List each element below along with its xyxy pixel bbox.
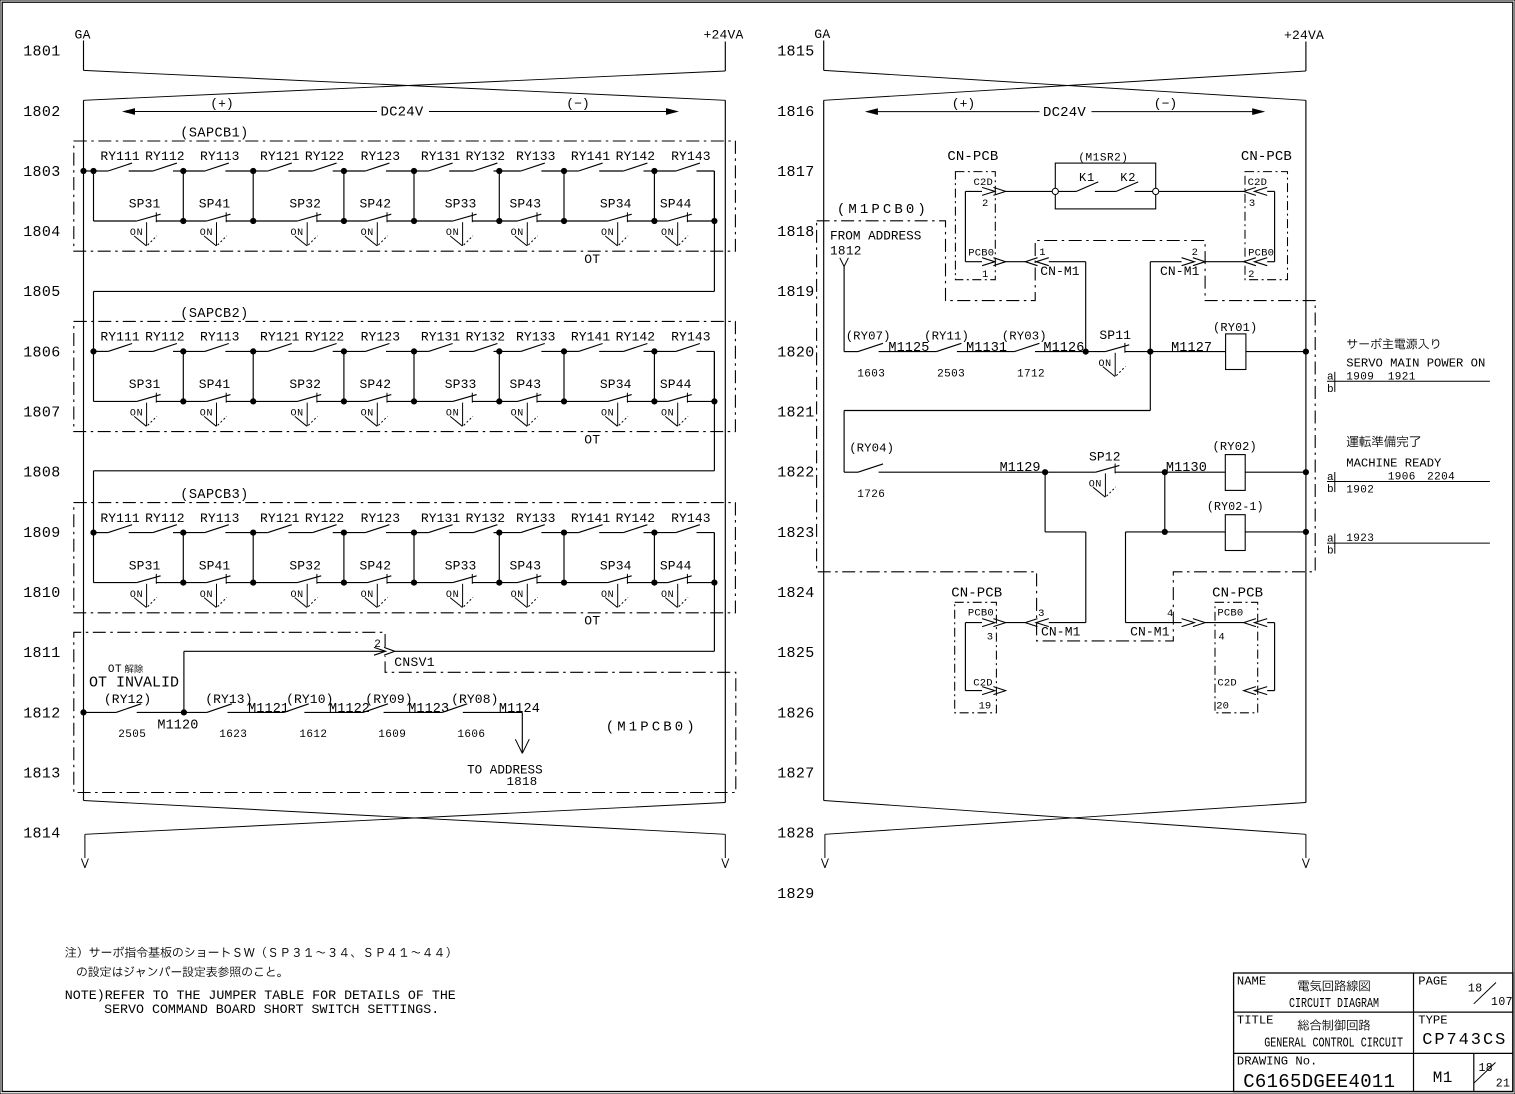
junction M1130 node	[1162, 470, 1167, 475]
svg-text:1815: 1815	[777, 44, 814, 61]
label address 1712	[1017, 368, 1045, 380]
wire SAPCB1 OT output return	[94, 171, 715, 351]
junction SAPCB1 SP row node 1	[181, 218, 186, 223]
wire CNSV1 to OT-invalid contact row	[184, 651, 386, 712]
contact RY131 (SAPCB3) NO contact	[421, 511, 461, 533]
contact RY122 (SAPCB2) NO contact	[305, 330, 345, 352]
relay unit (M1SR2) box	[1055, 153, 1155, 209]
junction left rail row 1812	[81, 710, 86, 715]
svg-text:RY112: RY112	[145, 330, 185, 345]
contact (RY11) signal M1131	[924, 329, 1007, 356]
label OT (SAPCB3 output)	[584, 614, 600, 629]
connector pin C2D-3 (top right)	[1244, 177, 1268, 210]
switch SP44 (SAPCB2) slide switch with ON position	[660, 377, 692, 426]
svg-text:C2D: C2D	[974, 177, 994, 189]
svg-text:1820: 1820	[777, 344, 814, 361]
junction node 7 SAPCB1 RY row	[652, 168, 657, 173]
wire SAPCB1 SP row segment under SP42	[344, 220, 414, 222]
wire SAPCB1 SP row segment under SP44	[654, 220, 714, 222]
svg-text:SP41: SP41	[199, 377, 231, 392]
contact RY141 (SAPCB2) NO contact	[571, 330, 611, 352]
contact RY141 (SAPCB3) NO contact	[571, 511, 611, 533]
wire SAPCB2 SP row segment under SP43	[499, 400, 564, 402]
svg-text:2: 2	[374, 639, 381, 651]
title block TITLE field	[1237, 1013, 1403, 1051]
junction node 4 SAPCB1 RY row	[411, 168, 416, 173]
wire SAPCB3 SP row segment under SP42	[344, 582, 414, 584]
svg-text:CN-PCB: CN-PCB	[1212, 586, 1263, 602]
label OT (SAPCB2 output)	[584, 432, 600, 447]
svg-text:1804: 1804	[23, 224, 60, 241]
svg-text:1826: 1826	[777, 705, 814, 722]
wire to next address arrow	[515, 712, 529, 753]
label address 1609	[378, 729, 406, 741]
wire SAPCB1 SP row segment under SP33	[414, 220, 499, 222]
contact RY112 (SAPCB3) NO contact	[145, 511, 185, 533]
svg-text:SP33: SP33	[445, 558, 477, 573]
wire from address 1812 with entry arrow	[840, 258, 849, 352]
contact RY132 (SAPCB2) NO contact	[466, 330, 506, 352]
note text english line 2	[104, 1002, 439, 1017]
svg-text:(M1SR2): (M1SR2)	[1078, 153, 1128, 165]
node GA (left sheet)	[75, 28, 91, 71]
svg-text:1808: 1808	[23, 465, 60, 482]
label address 1623	[219, 729, 247, 741]
svg-text:1810: 1810	[23, 585, 60, 602]
svg-text:DC24V: DC24V	[1043, 105, 1086, 121]
continuation arrow bottom-left (right sheet)	[821, 834, 828, 868]
contact (RY03) signal M1126	[1002, 329, 1085, 356]
contact RY113 (SAPCB3) NO contact	[200, 511, 240, 533]
svg-text:1923: 1923	[1346, 533, 1374, 545]
svg-text:SP31: SP31	[129, 197, 161, 212]
wire PCB0-1 to CN-M1-1	[1006, 261, 1026, 263]
svg-text:FROM ADDRESS: FROM ADDRESS	[830, 229, 921, 244]
svg-text:RY143: RY143	[671, 330, 711, 345]
label address 1606	[457, 729, 485, 741]
svg-text:(RY08): (RY08)	[451, 692, 498, 707]
contact RY121 (SAPCB2) NO contact	[260, 330, 300, 352]
label M1122	[329, 702, 370, 717]
wire CN-M1-4 to PCB0-4	[1205, 622, 1244, 624]
contact RY121 (SAPCB1) NO contact	[260, 149, 300, 171]
terminal circle M1SR2 left	[1052, 188, 1058, 194]
junction M1129 node	[1043, 470, 1048, 475]
PCB block (SAPCB2) dash-dot boundary	[74, 321, 736, 431]
switch SP34 (SAPCB3) slide switch with ON position	[600, 558, 632, 607]
signal stub SERVO MAIN POWER ON pages 1909 1921	[1327, 338, 1490, 396]
junction SAPCB2 SP row node 3	[341, 399, 346, 404]
wire SAPCB3 RY row segment nodes 1-2	[183, 532, 253, 534]
switch SP41 (SAPCB3) slide switch with ON position	[199, 558, 231, 607]
wire SAPCB2 SP row segment under SP33	[414, 400, 499, 402]
svg-text:a: a	[1327, 472, 1334, 484]
continuation arrow bottom-right (left sheet)	[722, 834, 729, 868]
wire M1SR2 to C2D-3	[1159, 190, 1244, 192]
junction node 5 SAPCB3 RY row	[497, 530, 502, 535]
svg-text:SP43: SP43	[509, 377, 541, 392]
wire M1SR2 internal segments	[1058, 190, 1152, 192]
continuation arrow bottom-right (right sheet)	[1302, 834, 1309, 868]
wire SAPCB3 SP row segment under SP33	[414, 582, 499, 584]
svg-text:RY122: RY122	[305, 330, 345, 345]
title block PAGE field	[1418, 974, 1513, 1009]
label (M1PCB0) right sheet	[837, 202, 929, 218]
svg-text:RY111: RY111	[100, 511, 140, 526]
svg-text:SP42: SP42	[359, 558, 391, 573]
contact RY131 (SAPCB1) NO contact	[421, 149, 461, 171]
contact RY132 (SAPCB1) NO contact	[466, 149, 506, 171]
svg-text:PAGE: PAGE	[1418, 974, 1447, 988]
wire SAPCB3 SP row segment under SP44	[654, 582, 714, 584]
label OT INVALID	[89, 674, 179, 691]
wire SAPCB3 RY row segment nodes 7-8	[654, 532, 714, 534]
svg-text:RY142: RY142	[616, 149, 656, 164]
svg-text:1612: 1612	[299, 729, 327, 741]
switch SP31 (SAPCB3) slide switch with ON position	[129, 558, 161, 607]
switch SP34 (SAPCB2) slide switch with ON position	[600, 377, 632, 426]
relay coil (RY01)	[1213, 321, 1257, 370]
wire SAPCB2 RY row segment nodes 1-2	[183, 350, 253, 352]
svg-text:CN-M1: CN-M1	[1160, 264, 1200, 279]
junction node 0 SAPCB3 RY row	[91, 530, 96, 535]
wire SAPCB1 RY row segment nodes 1-2	[183, 170, 253, 172]
wire SAPCB3 RY row segment nodes 3-4	[344, 532, 414, 534]
connector CN-PCB top-right dash-dot boundary	[1245, 172, 1288, 280]
wire jumper C2D-3 to PCB0-2 (connector back)	[1267, 191, 1274, 261]
svg-text:RY141: RY141	[571, 330, 611, 345]
svg-text:CIRCUIT DIAGRAM: CIRCUIT DIAGRAM	[1289, 997, 1379, 1012]
svg-text:SP33: SP33	[445, 197, 477, 212]
wire row 1820 up to CN-M1-2	[1150, 262, 1181, 352]
junction node 1 SAPCB3 RY row	[181, 530, 186, 535]
svg-text:1818: 1818	[507, 775, 538, 789]
switch SP32 (SAPCB2) slide switch with ON position	[289, 377, 321, 426]
switch SP42 (SAPCB3) slide switch with ON position	[359, 558, 391, 607]
svg-text:C2D: C2D	[1248, 177, 1268, 189]
contact (RY13) NO contact, signal M1121	[205, 692, 252, 712]
junction node 1 SAPCB1 RY row	[181, 168, 186, 173]
switch SP32 (SAPCB1) slide switch with ON position	[289, 197, 321, 246]
svg-text:4: 4	[1218, 631, 1224, 643]
connector pin C2D-19 (bottom left)	[973, 678, 1005, 713]
connector pin CN-M1-1	[1025, 247, 1080, 279]
svg-text:RY111: RY111	[100, 330, 140, 345]
PCB block (SAPCB1) dash-dot boundary	[74, 141, 736, 251]
wire SAPCB3 RY row segment nodes 2-3	[253, 532, 344, 534]
svg-text:RY123: RY123	[361, 511, 401, 526]
svg-text:SP32: SP32	[289, 197, 321, 212]
svg-text:SP32: SP32	[289, 558, 321, 573]
svg-text:GENERAL CONTROL CIRCUIT: GENERAL CONTROL CIRCUIT	[1264, 1037, 1403, 1052]
wire SAPCB3 RY row segment nodes 6-7	[564, 532, 654, 534]
wire SAPCB2 RY row segment nodes 5-6	[499, 350, 564, 352]
junction node 1 SAPCB2 RY row	[181, 349, 186, 354]
svg-text:RY142: RY142	[616, 511, 656, 526]
junction node 4 SAPCB2 RY row	[411, 349, 416, 354]
junction node 7 SAPCB3 RY row	[652, 530, 657, 535]
svg-text:RY142: RY142	[616, 330, 656, 345]
label address 1726	[857, 489, 885, 501]
wire C2D-2 to M1SR2	[1006, 190, 1053, 192]
bus label DC24V with polarity arrows (right sheet)	[865, 97, 1265, 121]
contact RY123 (SAPCB2) NO contact	[361, 330, 401, 352]
contact RY113 (SAPCB2) NO contact	[200, 330, 240, 352]
svg-text:1805: 1805	[23, 284, 60, 301]
switch SP43 (SAPCB1) slide switch with ON position	[509, 197, 541, 246]
svg-text:M1121: M1121	[248, 702, 289, 717]
svg-text:SP42: SP42	[359, 377, 391, 392]
wire SAPCB1 RY row segment nodes 3-4	[344, 170, 414, 172]
label M1123	[408, 702, 449, 717]
svg-text:RY131: RY131	[421, 330, 461, 345]
switch SP33 (SAPCB2) slide switch with ON position	[445, 377, 477, 426]
wire SAPCB3 OT output to CNSV1	[395, 533, 715, 652]
wire SAPCB2 SP row segment under SP32	[253, 400, 344, 402]
wire crossover left rail to bottom-right arrow (left sheet)	[84, 801, 726, 835]
svg-text:1801: 1801	[23, 44, 60, 61]
svg-text:SP44: SP44	[660, 197, 692, 212]
svg-text:1813: 1813	[23, 765, 60, 782]
svg-text:(RY11): (RY11)	[924, 329, 969, 343]
svg-text:RY123: RY123	[361, 149, 401, 164]
svg-text:(RY10): (RY10)	[286, 692, 333, 707]
contact RY123 (SAPCB3) NO contact	[361, 511, 401, 533]
junction SAPCB2 SP row output node	[712, 399, 717, 404]
junction node 6 SAPCB2 RY row	[561, 349, 566, 354]
switch SP44 (SAPCB1) slide switch with ON position	[660, 197, 692, 246]
svg-text:(RY04): (RY04)	[849, 442, 894, 456]
contact K1 (M1SR2)	[1076, 171, 1098, 192]
junction SAPCB2 SP row node 4	[411, 399, 416, 404]
svg-text:K2: K2	[1120, 171, 1136, 185]
contact RY131 (SAPCB2) NO contact	[421, 330, 461, 352]
wire M1130 node down to row 1823	[1164, 472, 1166, 532]
contact (RY12) NO contact, signal M1120	[104, 692, 151, 712]
junction node 6 SAPCB3 RY row	[561, 530, 566, 535]
wire (+) left rail (right sheet)	[823, 100, 825, 800]
wire SAPCB1 RY row segment nodes 0-1	[94, 170, 184, 172]
wire SAPCB2 SP row segment under SP31	[94, 400, 184, 402]
svg-text:RY123: RY123	[361, 330, 401, 345]
junction SAPCB1 SP row node 2	[251, 218, 256, 223]
junction row 1820 CN-M1-2 feed	[1148, 349, 1153, 354]
contact (RY07) signal M1125	[846, 329, 930, 356]
wire crossover GA to right rail (left sheet)	[84, 70, 726, 100]
svg-text:b: b	[1327, 484, 1334, 496]
contact RY121 (SAPCB3) NO contact	[260, 511, 300, 533]
relay coil (RY02-1)	[1207, 501, 1264, 551]
svg-text:2: 2	[1192, 247, 1198, 259]
svg-text:MACHINE READY: MACHINE READY	[1346, 456, 1442, 470]
label OT (SAPCB1 output)	[584, 252, 600, 267]
svg-text:1825: 1825	[777, 645, 814, 662]
svg-text:(SAPCB3): (SAPCB3)	[180, 488, 248, 503]
label CN-PCB (top left)	[947, 149, 998, 165]
svg-text:RY132: RY132	[466, 330, 506, 345]
svg-text:M1126: M1126	[1043, 341, 1084, 356]
wire SAPCB2 SP row segment under SP41	[183, 400, 253, 402]
wire SAPCB1 RY row segment nodes 2-3	[253, 170, 344, 172]
wire left rail tap into SAPCB1	[84, 170, 94, 172]
contact RY122 (SAPCB3) NO contact	[305, 511, 345, 533]
wire SAPCB3 RY row segment nodes 0-1	[94, 532, 184, 534]
svg-text:RY122: RY122	[305, 511, 345, 526]
wire M1129 node down and jog to CN-M1-3	[1045, 472, 1086, 622]
label M1120	[157, 719, 198, 734]
node GA (right sheet)	[814, 27, 830, 70]
svg-text:OT: OT	[584, 252, 600, 267]
switch SP11 slide switch	[1098, 328, 1131, 377]
svg-text:(RY01): (RY01)	[1213, 321, 1257, 335]
junction node 6 SAPCB1 RY row	[561, 168, 566, 173]
wire PCB0-3 to CN-M1-3	[1006, 622, 1026, 624]
connector pin CN-M1-2	[1160, 247, 1205, 279]
wire SAPCB2 RY row segment nodes 4-5	[414, 350, 499, 352]
svg-text:CNSV1: CNSV1	[394, 655, 435, 670]
connector pin PCB0-2 (top right)	[1244, 247, 1274, 280]
svg-text:3: 3	[1038, 608, 1044, 620]
contact (RY09) NO contact, signal M1123	[363, 692, 413, 712]
junction row 1823 node	[1162, 529, 1167, 534]
connector pin CN-M1-4	[1130, 608, 1205, 639]
svg-text:b: b	[1327, 546, 1334, 558]
label address 1612	[299, 729, 327, 741]
label CN-PCB (top right)	[1241, 149, 1292, 165]
svg-text:GA: GA	[75, 28, 91, 43]
note text english line 1	[65, 988, 456, 1003]
switch SP34 (SAPCB1) slide switch with ON position	[600, 197, 632, 246]
svg-text:C6165DGEE4011: C6165DGEE4011	[1243, 1071, 1395, 1093]
svg-text:2: 2	[1248, 269, 1254, 281]
junction SAPCB3 SP row output node	[712, 580, 717, 585]
junction node 3 SAPCB3 RY row	[341, 530, 346, 535]
wire SAPCB1 RY row segment nodes 7-8	[654, 170, 714, 172]
wire row 1822	[844, 471, 1306, 473]
svg-text:1906: 1906	[1388, 472, 1416, 484]
svg-text:RY131: RY131	[421, 511, 461, 526]
connector pin PCB0-1 (top left)	[968, 247, 1005, 280]
wire row 1823 tap down to CN-M1-4	[1126, 532, 1182, 623]
connector pin PCB0-4 (bottom right)	[1217, 608, 1267, 644]
wire SAPCB2 SP row segment under SP34	[564, 400, 654, 402]
switch SP31 (SAPCB1) slide switch with ON position	[129, 197, 161, 246]
svg-text:C2D: C2D	[1217, 678, 1237, 690]
svg-text:SP34: SP34	[600, 197, 632, 212]
svg-text:(RY09): (RY09)	[365, 692, 412, 707]
svg-text:a: a	[1327, 372, 1334, 384]
contact RY142 (SAPCB1) NO contact	[616, 149, 656, 171]
junction SAPCB3 SP row node 1	[181, 580, 186, 585]
junction node 2 SAPCB2 RY row	[251, 349, 256, 354]
svg-text:OT INVALID: OT INVALID	[89, 674, 179, 691]
svg-text:a: a	[1327, 533, 1334, 545]
label TO ADDRESS 1818	[467, 763, 543, 788]
svg-text:PCB0: PCB0	[1248, 247, 1274, 259]
wire crossover +24VA to left rail (right sheet)	[824, 71, 1306, 100]
switch SP42 (SAPCB2) slide switch with ON position	[359, 377, 391, 426]
svg-text:SP43: SP43	[509, 197, 541, 212]
switch SP41 (SAPCB1) slide switch with ON position	[199, 197, 231, 246]
wire vertical links RY row to SP row SAPCB2	[94, 351, 715, 401]
svg-text:(SAPCB1): (SAPCB1)	[180, 127, 248, 142]
svg-text:PCB0: PCB0	[968, 247, 994, 259]
svg-text:DRAWING No.: DRAWING No.	[1237, 1054, 1317, 1068]
junction node 2 SAPCB1 RY row	[251, 168, 256, 173]
svg-text:1818: 1818	[777, 224, 814, 241]
left sheet line numbers 1801-1814	[23, 44, 60, 843]
right sheet line numbers 1815-1829	[777, 44, 814, 903]
svg-text:+24VA: +24VA	[1284, 28, 1324, 43]
switch SP33 (SAPCB3) slide switch with ON position	[445, 558, 477, 607]
contact RY123 (SAPCB1) NO contact	[361, 149, 401, 171]
svg-text:1712: 1712	[1017, 368, 1045, 380]
contact RY132 (SAPCB3) NO contact	[466, 511, 506, 533]
contact (RY08) NO contact, signal M1124	[442, 692, 498, 712]
junction row 1820 CN-M1-1 feed	[1083, 349, 1088, 354]
svg-text:(−): (−)	[566, 97, 589, 112]
svg-text:RY111: RY111	[100, 149, 140, 164]
svg-text:1819: 1819	[777, 284, 814, 301]
svg-text:SP42: SP42	[359, 197, 391, 212]
svg-text:K1: K1	[1079, 171, 1095, 185]
wire SAPCB1 SP row segment under SP31	[94, 220, 184, 222]
svg-text:RY121: RY121	[260, 511, 300, 526]
label FROM ADDRESS 1812	[830, 229, 921, 259]
wire crossover right rail to bottom-left arrow (right sheet)	[825, 803, 1306, 835]
svg-text:1809: 1809	[23, 525, 60, 542]
title block sheet 18/21	[1474, 1062, 1511, 1090]
svg-text:TITLE: TITLE	[1237, 1013, 1274, 1027]
svg-text:M1130: M1130	[1166, 461, 1207, 476]
contact RY113 (SAPCB1) NO contact	[200, 149, 240, 171]
PCB block (M1PCB0) dash-dot boundary left sheet	[74, 632, 736, 792]
svg-text:(RY02-1): (RY02-1)	[1207, 501, 1264, 514]
svg-text:RY141: RY141	[571, 149, 611, 164]
title block TYPE field CP743CS	[1418, 1013, 1507, 1050]
wire SAPCB3 RY row segment nodes 5-6	[499, 532, 564, 534]
junction node M1120 row 1812	[181, 710, 186, 715]
svg-text:RY122: RY122	[305, 149, 345, 164]
svg-text:RY121: RY121	[260, 330, 300, 345]
svg-text:RY113: RY113	[200, 511, 240, 526]
svg-text:CP743CS: CP743CS	[1422, 1031, 1507, 1050]
contact RY112 (SAPCB2) NO contact	[145, 330, 185, 352]
contact RY111 (SAPCB2) NO contact	[100, 330, 140, 352]
svg-text:M1122: M1122	[329, 702, 370, 717]
junction SAPCB3 SP row node 7	[652, 580, 657, 585]
junction SAPCB3 SP row node 3	[341, 580, 346, 585]
wire SAPCB2 RY row segment nodes 6-7	[564, 350, 654, 352]
contact RY141 (SAPCB1) NO contact	[571, 149, 611, 171]
label M1129	[1000, 461, 1041, 476]
wire crossover left rail to bottom-right arrow (right sheet)	[824, 801, 1306, 835]
svg-text:SERVO MAIN POWER ON: SERVO MAIN POWER ON	[1346, 357, 1485, 371]
svg-text:RY143: RY143	[671, 149, 711, 164]
contact RY111 (SAPCB3) NO contact	[100, 511, 140, 533]
svg-text:1817: 1817	[777, 164, 814, 181]
svg-text:SP31: SP31	[129, 377, 161, 392]
svg-text:TYPE: TYPE	[1418, 1013, 1447, 1027]
svg-text:M1124: M1124	[499, 702, 540, 717]
svg-text:1827: 1827	[777, 765, 814, 782]
junction SAPCB1 SP row node 7	[652, 218, 657, 223]
svg-text:SERVO COMMAND BOARD SHORT SWIT: SERVO COMMAND BOARD SHORT SWITCH SETTING…	[104, 1002, 439, 1017]
junction left rail to SAPCB1	[81, 168, 86, 173]
wire (-) right rail (right sheet)	[1305, 100, 1307, 802]
svg-text:CN-M1: CN-M1	[1041, 624, 1081, 639]
label OT kaijo (OT release)	[108, 664, 143, 676]
